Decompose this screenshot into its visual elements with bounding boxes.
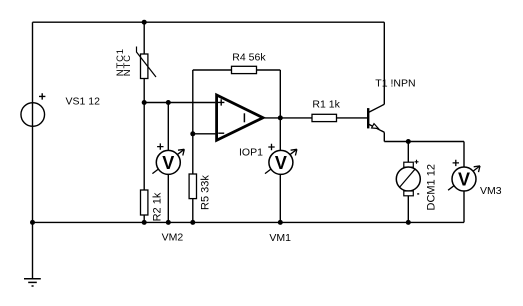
wire noninverting input: [144, 102, 215, 104]
wire R5 top: [192, 134, 194, 174]
wire VM2 bottom: [167, 174, 169, 222]
wire op-amp output: [265, 117, 313, 119]
svg-text:R1 1k: R1 1k: [312, 99, 340, 111]
svg-text:V: V: [458, 169, 470, 189]
resistor R1: [312, 114, 337, 121]
voltmeter VM2: [152, 143, 184, 174]
svg-text:V: V: [162, 153, 174, 173]
thermistor NTC1: [137, 47, 157, 79]
node rail VM1: [278, 220, 283, 225]
wire DCM1 bottom: [407, 196, 409, 223]
motor DCM1: [396, 160, 420, 196]
wire R2 bottom: [143, 215, 145, 222]
svg-text:VM2: VM2: [162, 231, 184, 243]
wire R4 left vertical: [192, 70, 194, 134]
node rail DCM1: [406, 220, 411, 225]
wire emitter vertical: [383, 132, 385, 141]
svg-text:R4 56k: R4 56k: [232, 52, 266, 64]
resistor R5: [189, 174, 196, 199]
wire R4 right vertical: [279, 70, 281, 118]
svg-text:T1 !NPN: T1 !NPN: [375, 78, 415, 90]
wire R5 bottom: [192, 199, 194, 223]
node emitter DCM tap: [406, 139, 411, 144]
wire VM1 top: [279, 118, 281, 151]
op-amp IOP1: [217, 95, 263, 140]
node rail R2: [142, 220, 147, 225]
svg-text:R5 33k: R5 33k: [200, 175, 212, 210]
resistor R4: [232, 66, 257, 73]
voltage source VS1: [21, 93, 45, 126]
wire VM1 bottom: [279, 174, 281, 222]
node top NTC junction: [142, 20, 147, 25]
voltmeter VM3: [448, 160, 480, 191]
node VM2 tap: [166, 100, 171, 105]
svg-text:VS1 12: VS1 12: [66, 96, 101, 108]
wire R4 right lead: [257, 69, 281, 71]
wire left vertical (VS1 branch): [32, 22, 34, 222]
wire emitter rail: [384, 141, 464, 143]
node inverting junction: [190, 131, 195, 136]
wire top rail: [33, 21, 385, 23]
node rail VM2: [166, 220, 171, 225]
wire NTC bottom drop: [143, 79, 145, 103]
svg-text:VM1: VM1: [269, 232, 291, 244]
svg-text:V: V: [275, 153, 287, 173]
wire DCM1 top: [407, 142, 409, 163]
wire R2 top: [143, 103, 145, 191]
svg-text:DCM1 12: DCM1 12: [425, 164, 437, 210]
wire bottom rail: [33, 221, 465, 223]
node noninverting left: [142, 100, 147, 105]
wire inverting input: [193, 133, 216, 135]
wire ground stem: [32, 222, 34, 278]
wire collector vertical: [383, 22, 385, 104]
ground: [24, 279, 41, 286]
node rail R5: [190, 220, 195, 225]
voltmeter VM1: [265, 144, 297, 175]
wire VM3 bottom: [463, 190, 465, 222]
wire R1 to base: [337, 117, 368, 119]
wire VM2 top: [167, 103, 169, 152]
resistor R2: [141, 190, 148, 215]
svg-text:R2 1k: R2 1k: [152, 192, 164, 221]
wire NTC top drop: [143, 22, 145, 54]
svg-text:VM3: VM3: [480, 185, 502, 197]
node output junction: [278, 115, 283, 120]
node ground rail left: [30, 220, 35, 225]
svg-text:IOP1: IOP1: [239, 146, 263, 158]
wire VM3 top: [463, 142, 465, 167]
wire R4 left lead: [193, 69, 232, 71]
transistor T1: [367, 104, 384, 132]
svg-text:NTC: NTC: [122, 54, 133, 76]
